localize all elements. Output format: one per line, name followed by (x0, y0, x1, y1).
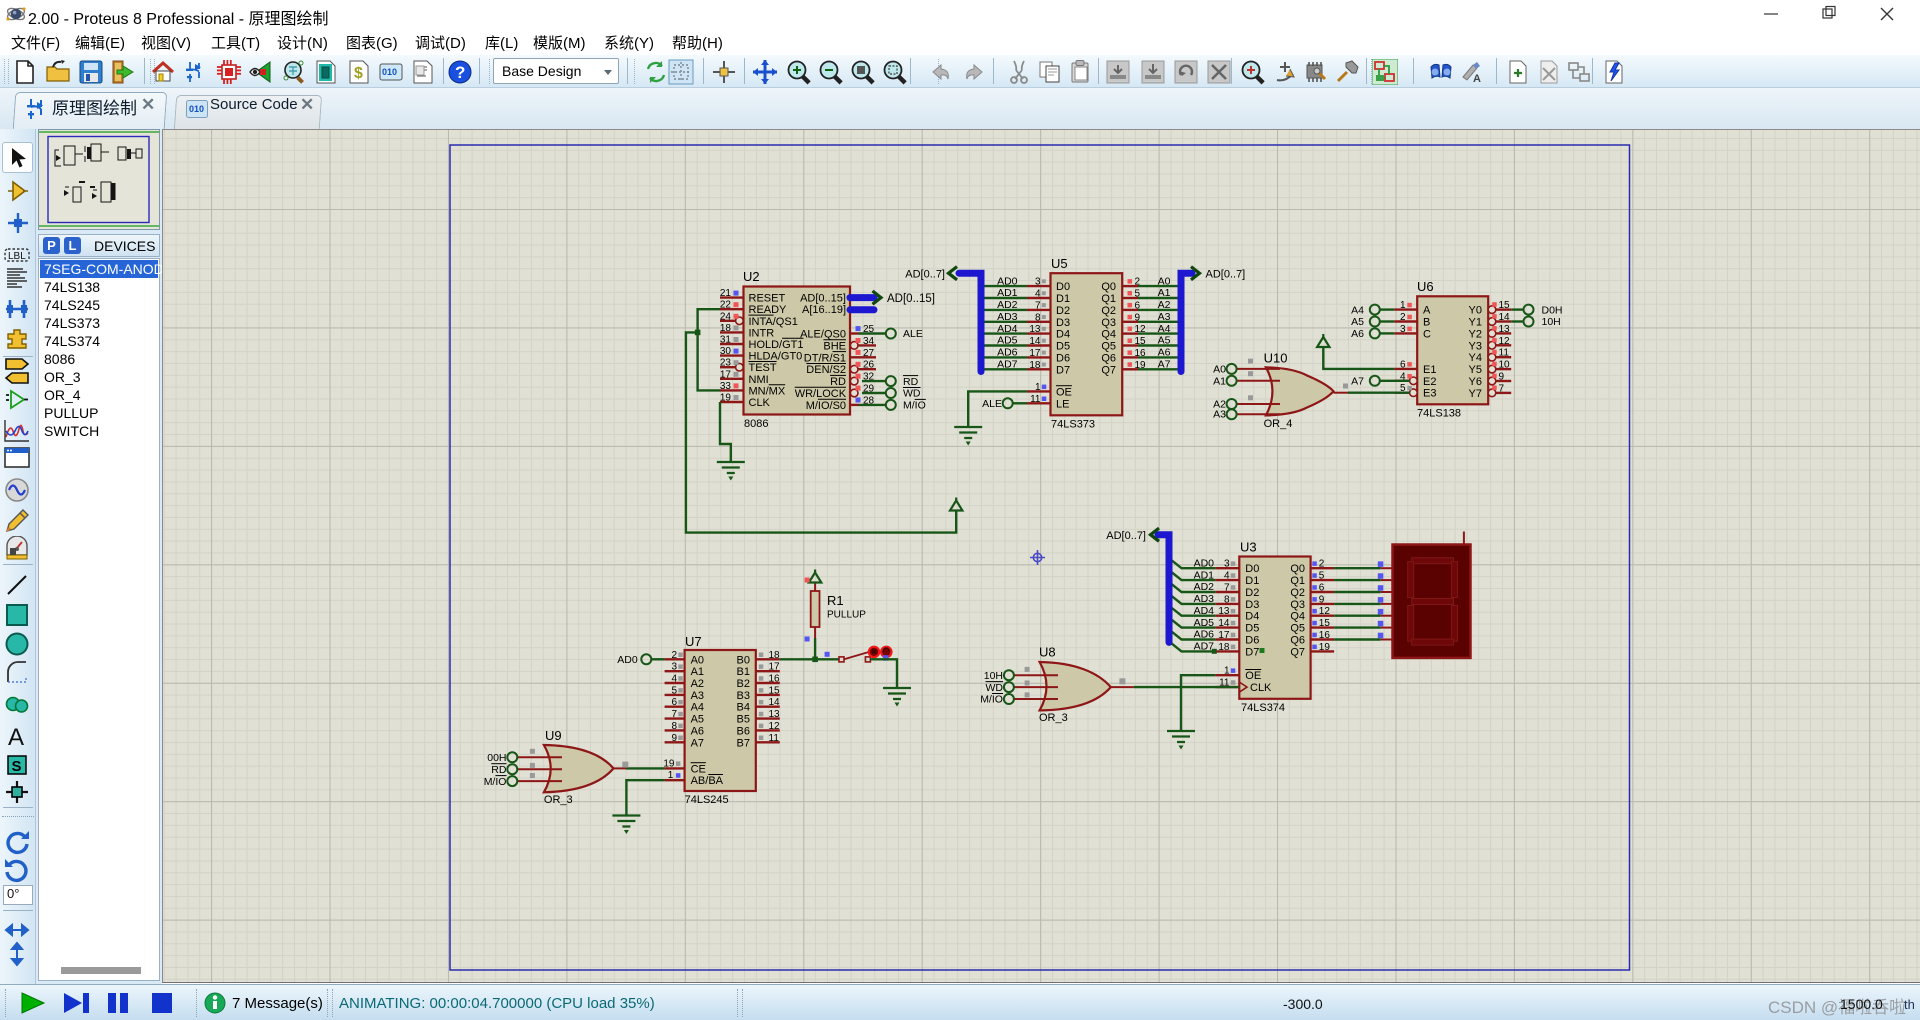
svg-text:A4: A4 (691, 702, 704, 714)
svg-text:OR_3: OR_3 (1039, 712, 1068, 724)
svg-text:8086: 8086 (744, 418, 768, 430)
microprocessor U2 (8086) (720, 269, 876, 430)
svg-text:M/IO: M/IO (980, 694, 1003, 706)
svg-text:6: 6 (1319, 583, 1325, 594)
svg-text:S: S (12, 758, 22, 775)
svg-text:RD: RD (491, 764, 507, 776)
svg-text:3: 3 (1035, 277, 1041, 288)
svg-text:34: 34 (863, 336, 875, 347)
svg-text:U5: U5 (1051, 256, 1068, 271)
svg-text:AB/BA: AB/BA (691, 775, 724, 787)
svg-text:4: 4 (1035, 289, 1041, 300)
svg-text:14: 14 (1499, 312, 1511, 323)
svg-text:7: 7 (671, 709, 677, 720)
wire M/IO from U2 to terminal (859, 404, 887, 406)
svg-text:26: 26 (863, 360, 875, 371)
terminal ALE (886, 328, 923, 340)
svg-text:Q6: Q6 (1290, 635, 1305, 647)
OR gate U8 (OR_3) (1013, 645, 1133, 725)
ground (U2 CLK) (717, 462, 745, 481)
svg-text:30: 30 (720, 346, 732, 357)
svg-text:15: 15 (1319, 618, 1331, 629)
terminal A4 (1351, 304, 1380, 316)
svg-text:D5: D5 (1245, 623, 1259, 635)
svg-text:24: 24 (720, 311, 732, 322)
wire RD from U2 to terminal (862, 380, 886, 382)
svg-text:Q3: Q3 (1101, 317, 1116, 329)
wire U9 output to U7.CE (626, 767, 665, 769)
svg-text:31: 31 (720, 335, 732, 346)
wire U5 OE to ground (968, 391, 1027, 427)
svg-text:A7: A7 (691, 737, 704, 749)
wire A4 to U6.A (1379, 308, 1394, 310)
svg-text:Y3: Y3 (1469, 340, 1482, 352)
OR gate U10 (OR_4) (1236, 351, 1348, 430)
wire READY to MN/MX (698, 309, 720, 390)
svg-text:22: 22 (720, 300, 732, 311)
svg-text:Q1: Q1 (1290, 575, 1305, 587)
wires A0-A7 from U5 Q pins to bus (1138, 286, 1182, 369)
svg-text:U10: U10 (1264, 351, 1288, 366)
latch U3 (74LS374) (1194, 540, 1335, 715)
svg-text:19: 19 (720, 393, 732, 404)
svg-text:21: 21 (720, 288, 732, 299)
svg-text:12: 12 (1499, 336, 1511, 347)
svg-text:00H: 00H (487, 752, 506, 764)
svg-text:10H: 10H (984, 670, 1003, 682)
svg-text:D0: D0 (1245, 563, 1259, 575)
svg-text:Q2: Q2 (1290, 587, 1305, 599)
ground (U3 OE) (1167, 731, 1195, 750)
svg-text:Y6: Y6 (1469, 376, 1482, 388)
wire U7.AB/BA to ground (626, 780, 664, 815)
terminal 10H (1524, 316, 1561, 328)
svg-text:AD[0..15]: AD[0..15] (800, 293, 846, 305)
svg-text:6: 6 (671, 697, 677, 708)
svg-text:Q0: Q0 (1101, 281, 1116, 293)
junction square on U3 D7 wire (1212, 649, 1217, 654)
svg-text:Q3: Q3 (1290, 599, 1305, 611)
terminal AD0 (U7) (617, 654, 651, 666)
svg-text:13: 13 (1499, 324, 1511, 335)
svg-text:D4: D4 (1056, 329, 1070, 341)
svg-text:A6: A6 (1351, 328, 1364, 340)
svg-text:18: 18 (1218, 642, 1230, 653)
svg-text:D3: D3 (1056, 317, 1070, 329)
svg-text:NMI: NMI (749, 374, 769, 386)
svg-text:AD0: AD0 (617, 654, 638, 666)
svg-text:18: 18 (720, 323, 732, 334)
svg-text:AD[0..7]: AD[0..7] (905, 269, 945, 281)
OR gate U9 (OR_3) (517, 728, 626, 806)
svg-text:8: 8 (671, 721, 677, 732)
wire A5 to U6.B (1379, 320, 1394, 322)
svg-text:5: 5 (1319, 571, 1325, 582)
terminal M/IO (U8) (980, 694, 1014, 706)
terminal D0H (1524, 304, 1563, 316)
svg-text:MN/MX: MN/MX (749, 385, 786, 397)
svg-text:Q4: Q4 (1101, 329, 1116, 341)
svg-text:OE: OE (1056, 386, 1072, 398)
svg-text:D0: D0 (1056, 281, 1070, 293)
svg-text:010: 010 (382, 67, 397, 77)
svg-text:READY: READY (749, 304, 788, 316)
terminal A6 (1351, 328, 1380, 340)
svg-text:18: 18 (1029, 360, 1041, 371)
svg-text:4: 4 (1224, 571, 1230, 582)
wire U2 CLK to ground (720, 402, 731, 462)
terminal M/IO (886, 399, 926, 411)
svg-text:RD: RD (903, 376, 919, 388)
svg-text:23: 23 (720, 358, 732, 369)
svg-text:D0H: D0H (1542, 304, 1563, 316)
svg-text:19: 19 (663, 758, 675, 769)
svg-text:11: 11 (1499, 348, 1510, 359)
svg-text:ALE/QS0: ALE/QS0 (800, 329, 846, 341)
svg-text:OR_4: OR_4 (1264, 418, 1293, 430)
svg-text:Q1: Q1 (1101, 293, 1116, 305)
svg-text:OE: OE (1245, 670, 1261, 682)
svg-text:74LS138: 74LS138 (1417, 408, 1461, 420)
svg-text:16: 16 (1319, 630, 1331, 641)
svg-text:7: 7 (1224, 583, 1230, 594)
terminal M/IO (U9) (484, 776, 518, 788)
latch U5 (74LS373) (997, 256, 1171, 431)
svg-text:INTR: INTR (749, 327, 775, 339)
svg-text:13: 13 (1029, 324, 1041, 335)
svg-text:A5: A5 (1351, 316, 1364, 328)
svg-text:10H: 10H (1542, 316, 1561, 328)
svg-text:74LS374: 74LS374 (1241, 702, 1285, 714)
wire from junction to power terminal (686, 332, 956, 532)
svg-text:E1: E1 (1423, 364, 1436, 376)
svg-text:D1: D1 (1245, 575, 1259, 587)
svg-text:B0: B0 (737, 654, 750, 666)
svg-text:16: 16 (769, 674, 781, 685)
svg-text:U7: U7 (685, 634, 702, 649)
svg-text:A: A (8, 724, 24, 749)
svg-text:B5: B5 (737, 714, 750, 726)
svg-text:AD[0..7]: AD[0..7] (1106, 530, 1146, 542)
svg-text:11: 11 (1030, 394, 1041, 405)
svg-text:Y2: Y2 (1469, 328, 1482, 340)
svg-text:3: 3 (1400, 324, 1406, 335)
svg-text:1: 1 (1400, 300, 1406, 311)
svg-text:12: 12 (1319, 606, 1331, 617)
svg-text:A: A (1473, 73, 1481, 85)
svg-text:$: $ (354, 65, 363, 82)
svg-text:15: 15 (769, 685, 781, 696)
svg-text:Q5: Q5 (1290, 623, 1305, 635)
terminal A7 (1351, 376, 1380, 388)
svg-text:6: 6 (1400, 359, 1406, 370)
junction on READY wire (695, 330, 701, 336)
svg-text:B3: B3 (737, 690, 750, 702)
decoder U6 (74LS138) (1394, 279, 1511, 420)
wire U8 output to U3 CLK (1134, 686, 1239, 688)
svg-text:M/IO: M/IO (903, 400, 926, 412)
terminal RD (U9) (491, 764, 517, 776)
svg-text:Q0: Q0 (1290, 563, 1305, 575)
ground (U5 OE) (954, 427, 982, 446)
svg-text:ALE: ALE (982, 398, 1002, 410)
svg-text:17: 17 (720, 369, 732, 380)
svg-text:Q7: Q7 (1101, 364, 1116, 376)
wires AD0-AD7 from bus to U5 D pins (979, 286, 1027, 369)
svg-text:2: 2 (1400, 312, 1406, 323)
svg-text:BHE: BHE (823, 340, 846, 352)
svg-text:A[16..19]: A[16..19] (802, 304, 846, 316)
wire AD0 to U7.A0 (651, 658, 665, 660)
svg-text:19: 19 (1319, 642, 1331, 653)
svg-text:Y0: Y0 (1469, 305, 1482, 317)
svg-text:D2: D2 (1056, 305, 1070, 317)
svg-text:Q5: Q5 (1101, 341, 1116, 353)
svg-text:E2: E2 (1423, 376, 1436, 388)
svg-text:B2: B2 (737, 678, 750, 690)
svg-text:PULLUP: PULLUP (827, 610, 866, 621)
terminal WD (886, 388, 921, 400)
bus AD[0..15] stub from U2 (850, 291, 881, 304)
svg-text:3: 3 (1224, 559, 1230, 570)
wire Y1 to 10H terminal (1511, 320, 1524, 322)
svg-text:RESET: RESET (749, 293, 786, 305)
resistor R1 (PULLUP) (811, 583, 867, 638)
svg-text:R1: R1 (827, 593, 844, 608)
svg-text:3: 3 (671, 662, 677, 673)
wire Y0 to D0H terminal (1511, 308, 1524, 310)
svg-text:C: C (1423, 328, 1431, 340)
svg-text:Q2: Q2 (1101, 305, 1116, 317)
terminal 00H (U9) (487, 752, 517, 764)
svg-text:U6: U6 (1417, 279, 1434, 294)
bus A[16..19] stub from U2 (850, 306, 874, 313)
terminal 10H (U8) (984, 670, 1014, 682)
power terminal (R1) (809, 570, 821, 583)
svg-text:U2: U2 (743, 269, 760, 284)
wire ALE from U2 to terminal (859, 332, 887, 334)
svg-text:17: 17 (769, 662, 781, 673)
svg-text:14: 14 (1218, 618, 1230, 629)
svg-text:1: 1 (1035, 382, 1041, 393)
svg-text:B4: B4 (737, 702, 750, 714)
svg-text:LE: LE (1056, 398, 1069, 410)
svg-text:A3: A3 (1213, 409, 1226, 421)
svg-text:8: 8 (1035, 312, 1041, 323)
svg-text:5: 5 (671, 685, 677, 696)
power terminal (net) (950, 498, 962, 511)
junction R1/B0 (812, 657, 818, 663)
origin marker (1030, 550, 1045, 565)
svg-text:D3: D3 (1245, 599, 1259, 611)
svg-text:14: 14 (1029, 336, 1041, 347)
svg-text:7: 7 (1499, 383, 1505, 394)
svg-text:AD[0..15]: AD[0..15] (887, 293, 935, 305)
svg-text:M/IO: M/IO (484, 776, 507, 788)
svg-text:WD: WD (986, 682, 1004, 694)
switch SW (SWITCH) (839, 647, 892, 662)
terminal A1 (1213, 376, 1236, 388)
transceiver U7 (74LS245) (663, 634, 780, 806)
svg-text:13: 13 (769, 709, 781, 720)
wire U3 OE to ground (1181, 675, 1215, 731)
svg-text:RD: RD (830, 376, 846, 388)
svg-text:D6: D6 (1245, 635, 1259, 647)
svg-text:A2: A2 (691, 678, 704, 690)
svg-text:74LS245: 74LS245 (685, 794, 729, 806)
wires U3 Q0-Q6 to display (1334, 561, 1392, 639)
svg-text:4: 4 (671, 674, 677, 685)
terminal A5 (1351, 316, 1380, 328)
svg-text:LBL: LBL (8, 251, 26, 262)
ground (U7 AB/BA) (612, 816, 640, 835)
svg-text:A6: A6 (691, 725, 704, 737)
svg-text:B7: B7 (737, 737, 750, 749)
svg-text:M/IO/S0: M/IO/S0 (806, 400, 846, 412)
svg-text:1: 1 (668, 770, 674, 781)
terminal A3 (1213, 409, 1236, 421)
wire R1 to B0 junction (814, 638, 816, 659)
svg-text:B1: B1 (737, 666, 750, 678)
bus AD[0..7] (right, from U5) (1181, 267, 1200, 372)
svg-text:U3: U3 (1240, 540, 1257, 555)
svg-text:B6: B6 (737, 725, 750, 737)
terminal A0 (1213, 364, 1236, 376)
svg-text:D6: D6 (1056, 352, 1070, 364)
svg-text:U9: U9 (545, 728, 562, 743)
svg-text:TEST: TEST (749, 362, 777, 374)
terminal RD (886, 376, 919, 388)
svg-text:A1: A1 (1213, 376, 1226, 388)
svg-text:14: 14 (769, 697, 781, 708)
svg-text:OR_3: OR_3 (544, 794, 573, 806)
svg-text:A1: A1 (691, 666, 704, 678)
svg-text:18: 18 (769, 650, 781, 661)
svg-text:DT/R/S1: DT/R/S1 (804, 352, 846, 364)
svg-text:Y5: Y5 (1469, 364, 1482, 376)
svg-text:A5: A5 (691, 714, 704, 726)
svg-text:Y7: Y7 (1469, 388, 1482, 400)
svg-text:A4: A4 (1351, 304, 1364, 316)
terminal ALE (U5) (982, 398, 1013, 410)
wire power to U6.E1 (1323, 346, 1394, 369)
svg-text:27: 27 (863, 348, 875, 359)
wire A6 to U6.C (1379, 332, 1394, 334)
power terminal (U6 E1) (1317, 334, 1329, 347)
svg-text:AD[0..7]: AD[0..7] (1206, 269, 1246, 281)
svg-text:CE: CE (691, 763, 706, 775)
svg-text:12: 12 (769, 721, 781, 732)
svg-text:A0: A0 (1213, 364, 1226, 376)
svg-text:17: 17 (1029, 348, 1041, 359)
svg-text:9: 9 (1499, 372, 1505, 383)
terminal A2 (1213, 399, 1236, 411)
svg-text:E3: E3 (1423, 388, 1436, 400)
svg-text:CLK: CLK (749, 397, 771, 409)
svg-text:10: 10 (1499, 360, 1511, 371)
wire WD from U2 to terminal (862, 392, 886, 394)
svg-text:11: 11 (769, 733, 780, 744)
svg-text:010: 010 (189, 104, 204, 114)
svg-text:9: 9 (671, 733, 677, 744)
bus AD[0..7] (into U3) (1151, 528, 1170, 642)
svg-text:Q6: Q6 (1101, 352, 1116, 364)
svg-text:15: 15 (1499, 300, 1511, 311)
schematic sheet border (450, 145, 1630, 970)
svg-text:A3: A3 (691, 690, 704, 702)
svg-text:CLK: CLK (1250, 682, 1272, 694)
svg-text:Q7: Q7 (1290, 646, 1305, 658)
wires AD0-AD7 from bus to U3 D pins (1170, 559, 1215, 651)
svg-text:A7: A7 (1351, 376, 1364, 388)
svg-text:17: 17 (1218, 630, 1230, 641)
wire switch to ground (870, 659, 897, 688)
ground (switch) (883, 688, 911, 707)
svg-text:D7: D7 (1245, 646, 1259, 658)
svg-text:DEN/S2: DEN/S2 (806, 364, 846, 376)
svg-text:D2: D2 (1245, 587, 1259, 599)
svg-text:ALE: ALE (903, 328, 923, 340)
svg-text:1: 1 (1224, 666, 1230, 677)
svg-text:Y1: Y1 (1469, 317, 1482, 329)
svg-text:WD: WD (903, 388, 921, 400)
wire A7 to U6.E2 (1379, 380, 1409, 382)
svg-text:HOLD/GT1: HOLD/GT1 (749, 339, 804, 351)
svg-text:33: 33 (720, 381, 732, 392)
7-segment display (7SEG-COM-ANOD) (1393, 532, 1471, 658)
svg-text:2: 2 (1319, 559, 1325, 570)
wire U10 output to U6.E3 (1348, 392, 1410, 394)
svg-text:Q4: Q4 (1290, 611, 1305, 623)
svg-text:B: B (1423, 317, 1430, 329)
svg-text:?: ? (455, 63, 465, 82)
svg-text:A: A (1423, 305, 1431, 317)
svg-text:74LS373: 74LS373 (1051, 419, 1095, 431)
terminal WD (U8) (986, 682, 1014, 694)
svg-text:8: 8 (1224, 594, 1230, 605)
svg-text:13: 13 (1218, 606, 1230, 617)
svg-text:WR/LOCK: WR/LOCK (795, 388, 847, 400)
svg-text:HLDA/GT0: HLDA/GT0 (749, 351, 803, 363)
svg-text:A0: A0 (691, 654, 704, 666)
svg-text:Y4: Y4 (1469, 352, 1482, 364)
svg-text:7: 7 (1035, 300, 1041, 311)
svg-text:D4: D4 (1245, 611, 1259, 623)
svg-text:2: 2 (671, 650, 677, 661)
wire U7.B0 to switch (780, 658, 839, 660)
bus AD[0..7] (left, into U5) (949, 267, 982, 372)
wire ALE terminal to U5 LE (1013, 402, 1027, 404)
svg-text:9: 9 (1319, 594, 1325, 605)
svg-text:U8: U8 (1039, 645, 1056, 660)
svg-text:D7: D7 (1056, 364, 1070, 376)
svg-text:INTA/QS1: INTA/QS1 (749, 316, 798, 328)
svg-text:D5: D5 (1056, 341, 1070, 353)
svg-text:D1: D1 (1056, 293, 1070, 305)
